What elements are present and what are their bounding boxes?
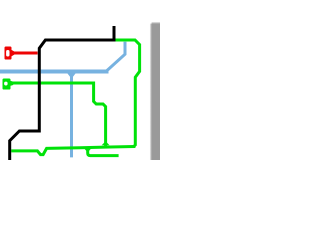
node blue branch junction fillet	[67, 73, 75, 76]
node black inner corner fillet bottom	[35, 130, 38, 133]
wire green bottom horizontal with V dip	[11, 147, 135, 155]
wire blue line horizontal main	[0, 70, 109, 74]
wire green line B from station: horizontal, staircase down	[11, 83, 106, 146]
wire red line	[11, 52, 38, 55]
node green staircase joins bottom line fillet	[102, 143, 110, 146]
wire green branch down to lower bottom line	[88, 148, 119, 156]
wire blue diagonal and vertical terminus near green line	[106, 42, 125, 72]
station red marker	[11, 50, 14, 57]
wire green line A right: from black line end, corner, jog, down to bottom corner	[115, 40, 140, 147]
node black inner corner fillet top	[110, 39, 113, 42]
wire black main line: top terminus, corner, long horizontal, diagonal, vertical, corner, diagonal, vertical to bottom	[10, 26, 114, 160]
station green marker	[10, 81, 13, 86]
wire blue branch vertical down	[70, 73, 73, 157]
node green branch junction fillet	[84, 148, 92, 151]
